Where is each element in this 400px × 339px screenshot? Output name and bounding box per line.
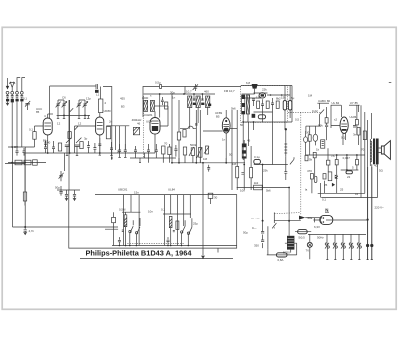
switch S1a contact (129, 230, 131, 232)
wire h y212.2 cluster1 (122, 211, 140, 213)
jack X1 (335, 175, 338, 179)
svg-text:0,22: 0,22 (312, 109, 318, 113)
lamp La1 cross (308, 243, 311, 246)
tube V4 getter dot (225, 120, 227, 122)
svg-text:50: 50 (240, 123, 244, 127)
resistor R12 (276, 101, 279, 108)
junction dot j10 (367, 219, 369, 221)
IF transformer T4 (206, 96, 210, 108)
dashed pot link (274, 213, 300, 214)
dot b2 (125, 245, 127, 247)
small circle tube pin (304, 137, 308, 143)
fm dot a (270, 94, 272, 96)
capacitor C17 (98, 138, 101, 153)
trimmer CT3 (65, 138, 72, 153)
fuse F1 (298, 230, 308, 234)
coil L1 former (99, 99, 103, 113)
resistor R57 (356, 160, 359, 165)
svg-text:3n: 3n (353, 133, 357, 137)
wire vert x248.6 (248, 122, 250, 146)
wire vert x25 down (24, 153, 26, 206)
bus y155 (305, 154, 364, 156)
wire vert x200.3 (199, 110, 201, 163)
elko C53 axial (346, 171, 352, 174)
svg-text:1600: 1600 (142, 96, 149, 100)
under row: wire h y147 (8, 146, 35, 148)
ground cap C32 below bus (24, 227, 27, 235)
svg-text:Philips-Philetta B1D43 A, 1964: Philips-Philetta B1D43 A, 1964 (86, 250, 192, 257)
capacitor C33 (59, 186, 62, 196)
FM detector dashed box (241, 86, 288, 123)
wire y122 bottom edge solid (242, 121, 287, 123)
wire corner x111.8 (103, 87, 112, 96)
elko C61 axial (254, 159, 261, 164)
capacitor C62 (284, 172, 287, 180)
resistor R56 (335, 160, 338, 165)
wire V1 cathode down (47, 140, 49, 153)
T3 hatch (196, 96, 200, 108)
ground ticks under row (46, 153, 127, 158)
svg-text:12: 12 (57, 122, 61, 126)
svg-text:220 V~: 220 V~ (375, 206, 385, 210)
wire C52 (306, 126, 316, 145)
wire vert x12.5 left (12, 147, 14, 227)
svg-text:x2: x2 (334, 118, 337, 122)
wire vert x196.3 (195, 110, 197, 163)
svg-text:1M: 1M (308, 94, 313, 98)
svg-text:N: N (325, 207, 328, 212)
antenna input A1 arrow (7, 78, 9, 86)
capacitor C16 (52, 141, 55, 153)
magic eye grid line (326, 219, 333, 221)
dot b7 (181, 245, 183, 247)
fm trimmer blob (252, 114, 256, 118)
svg-text:70: 70 (164, 142, 168, 146)
coil L8 (242, 144, 246, 158)
svg-text:5k6: 5k6 (231, 107, 236, 111)
dial lamp La1 (307, 242, 312, 247)
tone pot P2 (199, 147, 202, 157)
trimmer CT5 (59, 171, 64, 181)
ground tick gang1 (57, 115, 59, 118)
resistor R31 zigzag (124, 212, 127, 245)
svg-text:4,7n: 4,7n (29, 229, 35, 233)
svg-text:UL 84: UL 84 (332, 101, 340, 105)
resistor R58 (310, 174, 313, 179)
wire h y122 fm bottom ext (288, 86, 292, 123)
wire h y158 (130, 157, 176, 159)
svg-text:0,1: 0,1 (29, 128, 33, 132)
antenna input A3 hook (17, 78, 20, 92)
stub under bus158 a (139, 158, 141, 163)
wire vert x119.6 (119, 126, 121, 150)
capacitor C10 osc top (160, 85, 168, 89)
capacitor C45 (93, 143, 96, 153)
switch S1a (130, 220, 133, 245)
junction mid bus (262, 164, 264, 166)
elko C54 (314, 176, 317, 182)
stub x218 (217, 248, 219, 252)
magic eye cathode dot 2 (323, 221, 325, 223)
wire A4 down (21, 101, 23, 147)
capacitor C1 (6, 94, 9, 98)
wire speaker link (379, 148, 382, 152)
C4 label blob (20, 99, 23, 102)
elko C23 (283, 101, 286, 110)
diode D1 lead (254, 89, 256, 94)
junction dot y155 (346, 154, 348, 156)
svg-text:0,1: 0,1 (23, 97, 27, 101)
magic eye cathode dots (323, 217, 325, 219)
board top drops left cluster (123, 195, 139, 246)
capacitor C25 (147, 144, 150, 158)
capacitor C40 (208, 193, 213, 198)
svg-text:0,5M: 0,5M (119, 208, 126, 212)
svg-text:455: 455 (120, 97, 125, 101)
junction dot bus94 a (183, 93, 185, 95)
wire tuning bus (57, 114, 90, 116)
wire L1 down (99, 113, 101, 117)
capacitor C38 (167, 237, 170, 245)
wire h y90 top right link (185, 86, 241, 88)
fuse F2 (276, 253, 287, 257)
fm coil pill (258, 115, 265, 119)
wire antenna coil feed (49, 86, 51, 118)
svg-text:6,8: 6,8 (246, 81, 250, 85)
wire eye to mains (333, 219, 368, 221)
wire h y126 (75, 125, 97, 127)
svg-text:70: 70 (361, 148, 365, 152)
svg-text:50μ: 50μ (55, 186, 60, 190)
switch S3 (272, 223, 276, 228)
junction dot bus227 (24, 226, 26, 228)
wire vert x285.8 (285, 129, 287, 171)
tube V2 envelope (96, 117, 104, 135)
contact K5b (359, 246, 361, 248)
board top drops right cluster (164, 195, 190, 246)
svg-text:22k: 22k (262, 88, 267, 92)
resistor R30 (112, 217, 116, 222)
svg-text:1n: 1n (222, 138, 226, 142)
junction dot bus94 b (193, 93, 195, 95)
capacitor C50 (325, 123, 328, 140)
junction dot 262 (262, 220, 264, 222)
mains top bus y197.5 (321, 197, 377, 199)
coil L9 (284, 143, 287, 157)
supply feed wire y187.5 (237, 187, 289, 189)
wire gang top links (58, 99, 85, 101)
antenna socket Bu2 (11, 91, 14, 94)
resistor R4 moved (24, 201, 26, 227)
contact K3 lever (341, 243, 345, 260)
wire fuse wiring (295, 231, 311, 233)
T4 hatch (206, 96, 210, 108)
volume pot P1 (191, 148, 194, 156)
svg-text:46: 46 (137, 122, 141, 126)
svg-text:50μ: 50μ (243, 231, 248, 235)
antenna socket Bu1 (6, 91, 9, 94)
antenna socket Bu4 (20, 91, 23, 94)
diode D1 cap (252, 84, 258, 89)
wire R30 link (105, 212, 118, 245)
dashed link vert (300, 112, 302, 215)
output transformer T5 core B (376, 139, 379, 165)
svg-text:UL84: UL84 (350, 115, 357, 119)
svg-text:7V: 7V (306, 249, 310, 253)
resistor R52 (308, 135, 311, 141)
contact K4 (349, 243, 351, 245)
bus y126.1 left (306, 125, 321, 127)
contact K5 (357, 243, 359, 245)
wire vert x272.5 mid (272, 112, 274, 165)
capacitor C30 (33, 160, 38, 165)
tube V5 UL84 envelope (340, 117, 348, 133)
trimmer CT6 (193, 84, 198, 91)
capacitor C13 (201, 94, 203, 100)
capacitor C41 (261, 232, 264, 234)
L7 winding (322, 141, 324, 145)
IF transformer T1 (133, 127, 139, 134)
board box outline (69, 190, 237, 248)
wire R7 down (178, 140, 180, 163)
mains line L (367, 167, 369, 260)
capacitor C51 (353, 126, 356, 128)
L5 hatch (242, 95, 245, 114)
svg-text:2n: 2n (109, 120, 113, 124)
junction dot j14 (243, 164, 245, 166)
title box bottom line (80, 258, 233, 260)
wire pin circle (305, 131, 307, 155)
wire vert x232 (231, 110, 233, 190)
switch bus y234.4 (308, 233, 366, 235)
ratio coil L6 (246, 95, 249, 114)
antenna socket Bu3 (16, 91, 19, 94)
ratio coil L5 (242, 95, 245, 114)
resistor R2 (68, 132, 71, 139)
coil cap blob T3 (201, 103, 204, 105)
magic eye stub left (313, 218, 319, 223)
magic eye target electrode (320, 217, 322, 223)
junction dot j20 (159, 93, 161, 95)
capacitor C2 (11, 94, 14, 98)
C1 label blob (6, 99, 9, 102)
fm inner bus y94 (242, 93, 255, 95)
wire top to ferrite (50, 85, 96, 87)
junction dot j6 (171, 162, 173, 164)
svg-text:1n: 1n (172, 96, 176, 100)
antenna input A4 hook (22, 78, 25, 92)
svg-text:6,3V: 6,3V (314, 225, 320, 229)
svg-text:0,5: 0,5 (295, 118, 299, 122)
elko C24 (288, 101, 291, 110)
wire vert x274.3 (273, 212, 275, 223)
resistor R53 (305, 155, 308, 160)
wire vert x326.6 (326, 107, 328, 118)
coil cap blob T4 (208, 104, 211, 106)
capacitor C18 (110, 142, 113, 155)
wire fm box bottom drops (243, 112, 262, 160)
wire fm right vert (285, 86, 290, 130)
wire rect bottom (267, 243, 297, 255)
capacitor C22 (271, 98, 274, 112)
filter elko bank line (57, 189, 80, 191)
tube V2 electrodes (97, 123, 103, 154)
resistor R9 (183, 147, 186, 155)
wire drop to L1 (100, 87, 102, 100)
svg-text:0,5μ: 0,5μ (155, 80, 161, 84)
svg-text:500k: 500k (190, 143, 197, 147)
svg-text:20k: 20k (308, 216, 313, 220)
junction dots af bus (195, 162, 197, 164)
wire vert x74.5 (74, 126, 76, 153)
A1 arrowhead (6, 86, 9, 90)
resistor R60 (236, 167, 239, 178)
resistor R33 (176, 221, 179, 229)
fm inner bus y95 right (267, 94, 290, 96)
svg-text:85: 85 (36, 110, 40, 114)
switch S5 (320, 110, 325, 127)
contact K2 (333, 243, 335, 245)
ground tick gang4 (84, 115, 86, 118)
wire vert x203 (202, 163, 204, 248)
svg-text:1k2: 1k2 (254, 181, 259, 185)
capacitor C19 (118, 144, 121, 157)
elko C34 (65, 190, 68, 200)
tuning trimmer CT2 (77, 100, 82, 115)
resistor R4 (23, 192, 26, 201)
wire R52 (309, 129, 311, 155)
resistor R61 (250, 168, 253, 178)
wire vert x172 (171, 94, 173, 163)
svg-text:UCH81: UCH81 (143, 113, 153, 117)
resistor R8 (162, 146, 165, 154)
resistor R64 (168, 147, 171, 155)
T1 hatch (133, 127, 139, 134)
tuning trimmer CT1 (56, 100, 61, 115)
svg-text:50k: 50k (318, 124, 323, 128)
IF transformer T3 (196, 96, 200, 108)
L8 leads (243, 140, 245, 190)
wire vert x331 (330, 105, 332, 128)
bottom terminal ticks (326, 259, 373, 261)
junction dot bus94 c (202, 93, 204, 95)
svg-text:12k: 12k (256, 96, 261, 100)
svg-text:0,047: 0,047 (343, 156, 351, 160)
R31 hatch (124, 218, 127, 227)
wire V3 top feed (159, 94, 161, 118)
pot P1 arrow (189, 147, 194, 156)
junction dot af2 (225, 162, 227, 164)
OT leads (370, 113, 377, 198)
C3 label blob (16, 99, 19, 102)
page mark top right (389, 82, 392, 84)
svg-text:5μ: 5μ (291, 96, 295, 100)
capacitor C31 ticks (16, 148, 26, 156)
wire R63 lead (358, 135, 360, 145)
wire vert x361 (359, 105, 361, 197)
wire rect vert x289.1 (288, 188, 290, 236)
V5 feed vert (341, 105, 343, 117)
magic eye EM84 envelope (320, 215, 333, 224)
wire vert x179 (178, 100, 180, 132)
capacitor C37 (122, 230, 124, 231)
resistor R54 (313, 152, 316, 157)
switch S1b (136, 218, 140, 246)
wire h y163.5 left (5, 163, 25, 165)
svg-text:15n: 15n (134, 190, 139, 194)
tuning varcap C6a (62, 100, 67, 115)
wire lamp leads (309, 234, 311, 259)
junction dot j9 (262, 220, 264, 222)
ground tick gang2 (63, 115, 65, 118)
junction dot j22 (242, 121, 244, 123)
rectifier side tick (285, 242, 297, 244)
svg-text:UL84: UL84 (168, 188, 175, 192)
svg-text:0,8A: 0,8A (278, 258, 284, 262)
resistor R62 (363, 131, 366, 140)
wire vert x25.2 (24, 147, 26, 192)
svg-text:UBC81: UBC81 (118, 188, 128, 192)
oscillator box top (143, 87, 185, 107)
ground tick gang3 (78, 115, 80, 118)
resistor R40 (254, 185, 263, 190)
wire h y94 (144, 93, 215, 95)
svg-text:10,7: 10,7 (186, 90, 192, 94)
capacitor C3 (16, 94, 19, 98)
junction dot fm (285, 128, 287, 130)
capacitor C26 (155, 144, 158, 158)
wire hop to V4 grid (180, 126, 223, 131)
wire vert x319.5 (319, 103, 321, 109)
junction dot j25 (24, 162, 26, 164)
diode D2 dark (261, 94, 264, 96)
junction dot j18 (63, 115, 65, 117)
resistor R63 (357, 128, 360, 136)
resistor R11 (266, 101, 269, 108)
coil former L2 (106, 127, 110, 139)
svg-text:UABC 80: UABC 80 (318, 99, 330, 103)
capacitor C20 (252, 99, 255, 106)
contact K4b (351, 246, 353, 248)
contact K1b (327, 246, 329, 248)
wire vert x125.3 (124, 126, 126, 150)
contact K2 lever (333, 243, 337, 260)
junction dot j8 (288, 187, 290, 189)
junction dot x289 (288, 220, 290, 222)
svg-text:1M: 1M (232, 162, 237, 166)
switch S2b contact (187, 232, 189, 234)
svg-text:25k: 25k (263, 169, 268, 173)
svg-text:UY 85: UY 85 (350, 101, 358, 105)
svg-text:0—: 0— (252, 226, 257, 230)
svg-text:46: 46 (247, 139, 251, 143)
wire V1 top link (48, 113, 53, 115)
tube V5 leads (331, 126, 346, 146)
C2 label blob (11, 99, 14, 103)
capacitor C60 (241, 173, 244, 175)
tube V5 cathode band (342, 129, 347, 131)
svg-text:15k: 15k (281, 96, 286, 100)
L3 hatch (144, 100, 148, 111)
mains contact M2 (370, 244, 373, 247)
junction dot j23 (253, 121, 255, 123)
wire R51 (356, 105, 358, 135)
resistor R1 (33, 132, 36, 140)
resistor R7 (177, 132, 180, 140)
switch S2a contact (181, 231, 183, 233)
wire V4 plate right (230, 128, 237, 130)
coil L7 (321, 140, 325, 148)
